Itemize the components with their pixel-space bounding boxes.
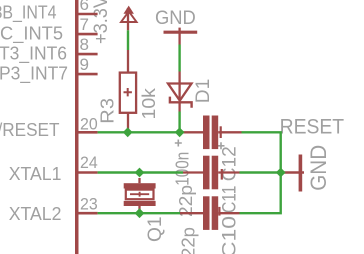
polarity plus gray name side C12 [218,142,225,149]
capacitor C10 [180,196,240,230]
svg-text:/RESET: /RESET [0,119,60,140]
svg-text:C10: C10 [219,216,240,254]
pin 24 stub XTAL1 [78,171,98,174]
svg-text:GND: GND [155,7,196,29]
capacitor C11 [183,156,240,190]
svg-text:C_INT5: C_INT5 [0,22,63,44]
svg-text:20: 20 [80,115,98,134]
wire XTAL1 to C11 [98,171,183,173]
supply symbol +3.3V arrow [121,7,137,31]
wire /RESET pin to C12 [98,131,181,133]
svg-text:GND: GND [306,145,331,191]
pin 20 stub /RESET [78,131,98,134]
wire gnd top to D1 [178,45,180,72]
junction Q1 XTAL2 [135,208,145,218]
svg-text:3B_INT4: 3B_INT4 [0,1,57,23]
wire 3.3V supply to R3 [127,30,129,50]
svg-text:22p: 22p [179,227,199,254]
svg-text:7: 7 [80,15,89,34]
capacitor C12 [181,116,242,150]
svg-text:10k: 10k [139,87,159,119]
polarity plus gray value side C12 [175,140,182,147]
svg-text:T3_INT6: T3_INT6 [0,43,67,65]
svg-text:P3_INT7: P3_INT7 [0,63,68,85]
pin 9 stub [78,73,98,76]
junction Q1 XTAL1 [135,168,145,178]
pin 7 stub [78,33,98,36]
svg-text:RESET: RESET [280,115,345,138]
svg-text:R3: R3 [98,98,118,124]
svg-text:23: 23 [80,195,98,214]
gnd symbol top [164,28,198,45]
wire C10 to gnd junction [240,173,281,214]
IC body edge [75,0,79,254]
svg-text:XTAL1: XTAL1 [9,163,62,184]
crystal Q1 [124,178,156,211]
svg-text:D1: D1 [193,79,214,104]
junction R3 /RESET [123,127,133,137]
wire C11 to gnd junction [240,171,281,173]
zener diode D1 [168,72,192,112]
junction D1 /RESET [175,127,185,137]
wire XTAL2 to C10 [98,212,180,214]
svg-text:6: 6 [80,0,89,14]
pin 6 stub [78,13,98,16]
svg-text:9: 9 [80,55,89,74]
svg-text:24: 24 [80,153,98,172]
maroon symbol layer [75,0,304,254]
wire D1 to RESET net [178,112,180,132]
green net layer [98,30,286,218]
wire C12 to right corner down [242,132,281,172]
svg-text:+3.3V: +3.3V [91,0,112,44]
junction gnd right [276,168,286,178]
gnd symbol right [284,155,304,192]
pin 23 stub XTAL2 [78,212,98,215]
svg-text:XTAL2: XTAL2 [9,203,62,224]
svg-text:100n: 100n [173,152,193,186]
svg-text:8: 8 [80,35,89,54]
resistor R3 [120,50,136,132]
svg-text:Q1: Q1 [145,217,166,243]
svg-text:C11: C11 [219,186,240,214]
pin 8 stub [78,53,98,56]
